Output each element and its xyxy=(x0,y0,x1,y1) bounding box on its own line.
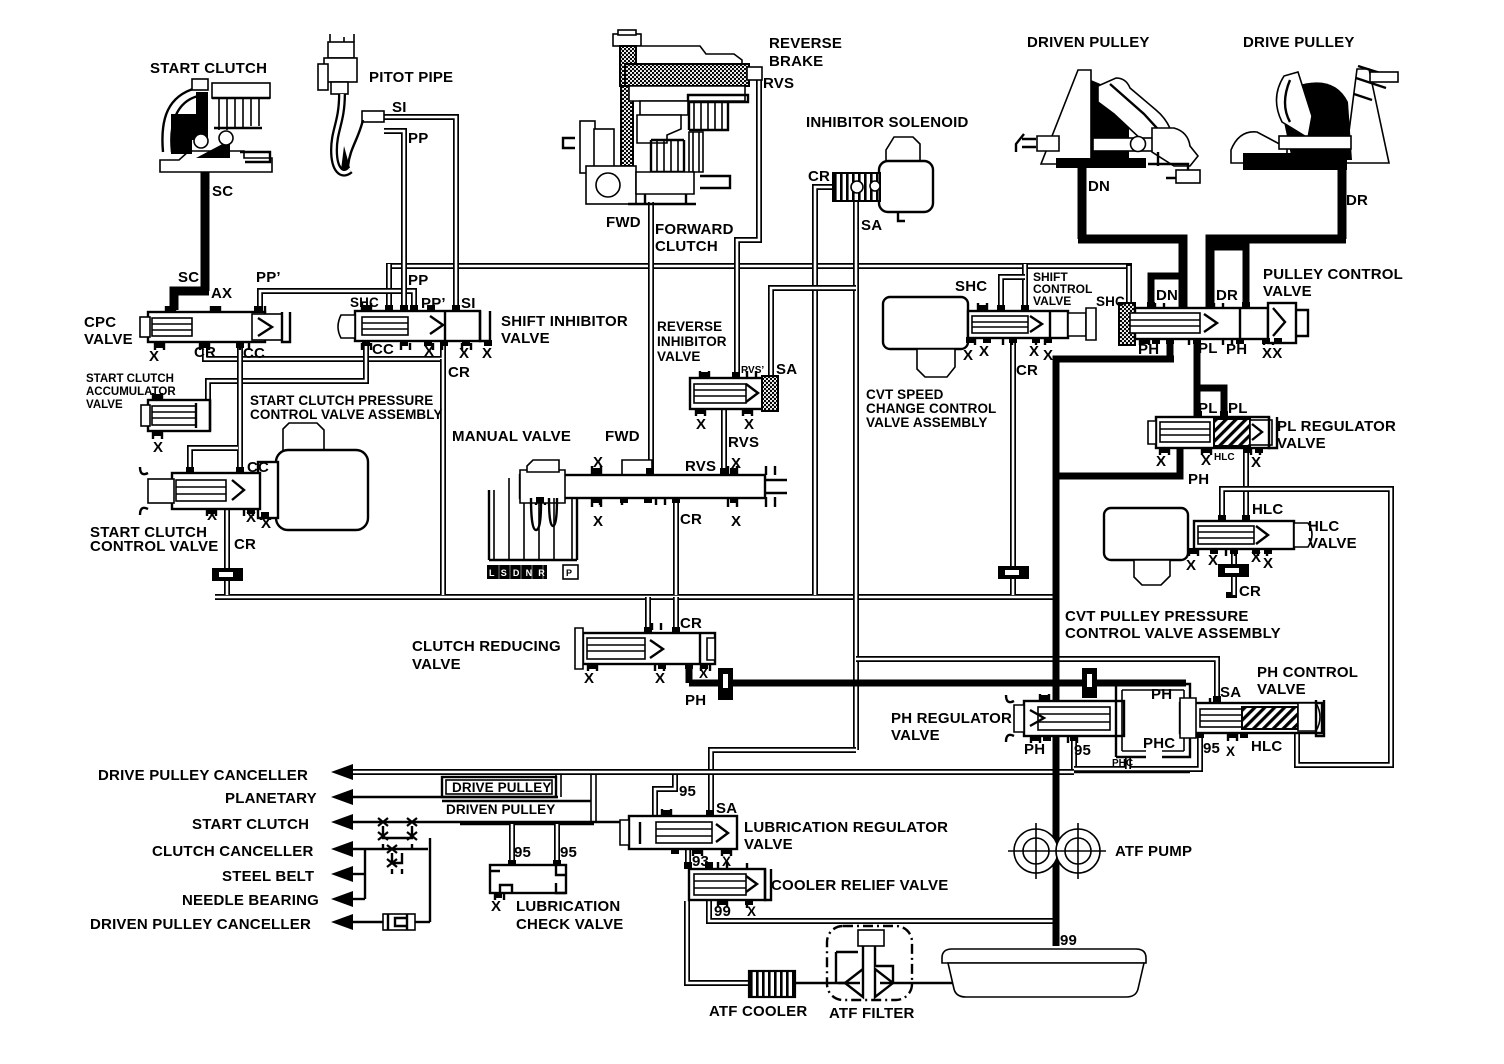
svg-text:VALVE: VALVE xyxy=(1033,294,1071,308)
svg-text:X: X xyxy=(1201,452,1211,469)
svg-text:PL: PL xyxy=(1198,340,1218,357)
svg-text:PP: PP xyxy=(408,130,428,147)
svg-text:95: 95 xyxy=(1074,742,1091,759)
svg-text:START CLUTCH PRESSURE: START CLUTCH PRESSURE xyxy=(250,393,433,408)
svg-text:PL REGULATOR: PL REGULATOR xyxy=(1277,418,1396,435)
svg-text:DN: DN xyxy=(1156,287,1178,304)
svg-text:X: X xyxy=(1029,343,1039,360)
svg-text:PH: PH xyxy=(1138,341,1159,358)
svg-text:MANUAL VALVE: MANUAL VALVE xyxy=(452,428,571,445)
wire y772 long run xyxy=(352,769,1074,775)
wire long horizontal run y597 xyxy=(215,594,1054,600)
svg-text:BRAKE: BRAKE xyxy=(769,53,823,70)
svg-text:XX: XX xyxy=(1262,345,1282,362)
svg-text:X: X xyxy=(1156,453,1166,470)
wire canceller long vertical xyxy=(429,838,431,922)
ATF cooler xyxy=(749,971,795,997)
svg-text:PH: PH xyxy=(1188,471,1209,488)
svg-text:99: 99 xyxy=(714,903,731,920)
svg-text:X: X xyxy=(491,898,501,915)
svg-text:FWD: FWD xyxy=(606,214,641,231)
junction box SCCV line xyxy=(212,568,243,581)
svg-text:CR: CR xyxy=(680,511,702,528)
svg-text:PLANETARY: PLANETARY xyxy=(225,790,317,807)
svg-text:X: X xyxy=(246,509,256,526)
wire RVS from reverse brake xyxy=(737,78,759,378)
svg-text:CR: CR xyxy=(1016,362,1038,379)
svg-text:X: X xyxy=(979,343,989,360)
CPC valve xyxy=(140,306,290,350)
wire PL thick xyxy=(1194,336,1201,419)
svg-text:CLUTCH REDUCING: CLUTCH REDUCING xyxy=(412,638,561,655)
svg-text:CLUTCH CANCELLER: CLUTCH CANCELLER xyxy=(152,843,314,860)
svg-text:COOLER RELIEF VALVE: COOLER RELIEF VALVE xyxy=(771,877,948,894)
driven pulley canceller component xyxy=(383,914,415,930)
valve port stubs xyxy=(153,302,1282,905)
svg-text:CR: CR xyxy=(448,364,470,381)
svg-text:X: X xyxy=(261,515,271,532)
wire canceller line 4 clutch canceller xyxy=(350,848,428,850)
svg-text:START CLUTCH: START CLUTCH xyxy=(192,816,309,833)
svg-text:X: X xyxy=(731,455,741,472)
junction box shift control CR line xyxy=(998,566,1029,579)
svg-text:CHANGE CONTROL: CHANGE CONTROL xyxy=(866,401,996,416)
wire filter to pan xyxy=(880,982,960,984)
svg-text:X: X xyxy=(593,454,603,471)
svg-text:SHC: SHC xyxy=(955,278,987,295)
svg-text:X: X xyxy=(1186,557,1196,574)
shift inhibitor valve xyxy=(338,303,490,350)
svg-text:INHIBITOR SOLENOID: INHIBITOR SOLENOID xyxy=(806,114,969,131)
wire SA to lubrication regulator xyxy=(711,750,856,816)
svg-text:CC: CC xyxy=(372,341,394,358)
wire canceller line 7 driven pulley canceller xyxy=(350,921,383,923)
svg-text:CC: CC xyxy=(243,345,265,362)
svg-text:RVS: RVS xyxy=(763,75,794,92)
wire SA branch right to PH control valve xyxy=(856,659,1217,700)
svg-text:P: P xyxy=(566,568,572,578)
wire PH thick from pulley control valve xyxy=(1167,336,1174,359)
wire CR from SCCV down xyxy=(224,510,230,595)
svg-text:SI: SI xyxy=(461,295,476,312)
wire cooler to filter xyxy=(795,982,860,984)
wire SHC right elbow down to pulley control valve xyxy=(1126,263,1132,333)
wire CR drop from shift inhibitor to y597 xyxy=(440,359,446,595)
svg-text:NEEDLE BEARING: NEEDLE BEARING xyxy=(182,892,319,909)
svg-text:95: 95 xyxy=(1203,740,1220,757)
svg-text:CR: CR xyxy=(234,536,256,553)
wire 99 run from cooler relief xyxy=(709,901,1054,921)
wire CR drop from HLC valve xyxy=(1231,550,1237,564)
svg-text:95: 95 xyxy=(679,783,696,800)
svg-text:CC: CC xyxy=(247,459,269,476)
svg-text:VALVE: VALVE xyxy=(86,399,123,411)
svg-text:CPC: CPC xyxy=(84,314,116,331)
svg-text:LUBRICATION REGULATOR: LUBRICATION REGULATOR xyxy=(744,819,948,836)
svg-text:VALVE: VALVE xyxy=(657,349,701,364)
svg-text:X: X xyxy=(747,904,756,919)
svg-text:X: X xyxy=(459,345,469,362)
svg-text:LSDNR: LSDNR xyxy=(489,568,551,578)
svg-text:CR: CR xyxy=(1239,583,1261,600)
lubrication regulator valve xyxy=(620,809,737,856)
svg-text:95: 95 xyxy=(514,844,531,861)
wire SHC drop from y263 to shift inhibitor valve xyxy=(386,264,392,310)
svg-text:HLC: HLC xyxy=(1214,452,1235,463)
svg-text:VALVE: VALVE xyxy=(84,331,133,348)
svg-text:PH: PH xyxy=(1151,686,1172,703)
svg-text:REVERSE: REVERSE xyxy=(657,319,722,334)
svg-text:INHIBITOR: INHIBITOR xyxy=(657,334,727,349)
black component on PH line (left) xyxy=(718,668,733,700)
wire SC thick line xyxy=(201,172,210,291)
wire 95 line lubrication regulator risers xyxy=(655,774,675,816)
svg-text:DRIVE PULLEY: DRIVE PULLEY xyxy=(1243,34,1355,51)
wire drive pulley label box risers xyxy=(556,774,561,797)
svg-text:RVS’: RVS’ xyxy=(741,365,764,376)
wire RVS reverse inhibitor to manual valve xyxy=(721,407,727,474)
svg-text:X: X xyxy=(655,670,665,687)
svg-text:PH: PH xyxy=(1024,741,1045,758)
svg-text:RVS: RVS xyxy=(728,434,759,451)
wire main horizontal run y263 xyxy=(386,263,1129,269)
wire canceller line 1 drive pulley xyxy=(348,771,1190,773)
svg-text:X: X xyxy=(696,416,706,433)
svg-text:VALVE: VALVE xyxy=(1277,435,1326,452)
svg-text:SI: SI xyxy=(392,99,407,116)
wire HLC box loop (CVT pulley pressure assembly) xyxy=(1222,489,1391,765)
svg-text:99: 99 xyxy=(1060,932,1077,949)
wire PHC stub xyxy=(1125,757,1131,769)
svg-text:VALVE: VALVE xyxy=(412,656,461,673)
wire PH thick to PL regulator xyxy=(1056,446,1180,476)
svg-text:X: X xyxy=(699,666,708,681)
svg-text:HLC: HLC xyxy=(1252,501,1283,518)
wire canceller line 2 planetary xyxy=(350,796,558,798)
svg-text:PL: PL xyxy=(1198,400,1218,417)
svg-text:PH REGULATOR: PH REGULATOR xyxy=(891,710,1012,727)
svg-text:X: X xyxy=(1251,549,1261,566)
svg-text:VALVE: VALVE xyxy=(1308,535,1357,552)
svg-text:X: X xyxy=(722,854,731,869)
wire PP' from CPC to shift inhibitor xyxy=(260,291,414,314)
svg-text:AX: AX xyxy=(211,285,232,302)
ATF filter xyxy=(827,926,912,1000)
svg-text:X: X xyxy=(1263,555,1273,572)
svg-text:PH: PH xyxy=(685,692,706,709)
svg-text:HLC: HLC xyxy=(1308,518,1339,535)
wire CR run CPC to shift inhibitor xyxy=(205,345,443,359)
svg-text:VALVE: VALVE xyxy=(744,836,793,853)
svg-text:CHECK VALVE: CHECK VALVE xyxy=(516,916,624,933)
wire CR drop to clutch reducing valve xyxy=(673,597,679,632)
svg-text:ATF COOLER: ATF COOLER xyxy=(709,1003,807,1020)
svg-text:SA: SA xyxy=(716,800,737,817)
svg-text:DN: DN xyxy=(1088,178,1110,195)
svg-text:CR: CR xyxy=(808,168,830,185)
svg-text:DRIVEN PULLEY: DRIVEN PULLEY xyxy=(446,802,555,817)
svg-text:DR: DR xyxy=(1346,192,1368,209)
svg-text:X: X xyxy=(482,345,492,362)
svg-text:DRIVE PULLEY: DRIVE PULLEY xyxy=(452,780,551,795)
svg-text:SA: SA xyxy=(1220,684,1241,701)
svg-text:X: X xyxy=(424,343,434,360)
wire cooler circuit xyxy=(687,901,748,983)
svg-text:ATF PUMP: ATF PUMP xyxy=(1115,843,1192,860)
svg-text:HLC: HLC xyxy=(1251,738,1282,755)
wire PH thick bottom run xyxy=(686,662,693,683)
wire CC run xyxy=(208,345,366,400)
svg-text:X: X xyxy=(744,416,754,433)
svg-text:START CLUTCH: START CLUTCH xyxy=(86,373,174,385)
reverse inhibitor valve xyxy=(690,371,778,416)
svg-text:PHC: PHC xyxy=(1143,735,1175,752)
wire 95/PH-reg bottom loop xyxy=(1071,737,1077,769)
svg-text:X: X xyxy=(1251,454,1261,471)
orifice x-marks between canceller lines xyxy=(378,818,417,874)
svg-text:FORWARD: FORWARD xyxy=(655,221,734,238)
wire CR drop from manual valve xyxy=(673,499,679,595)
svg-text:X: X xyxy=(731,513,741,530)
PH regulator valve + chamber xyxy=(1006,684,1190,757)
wire canceller vertical steel-belt branch xyxy=(364,849,366,899)
svg-text:VALVE: VALVE xyxy=(1263,283,1312,300)
svg-text:PP’: PP’ xyxy=(421,295,446,312)
svg-text:PULLEY CONTROL: PULLEY CONTROL xyxy=(1263,266,1403,283)
wire SI pitot line xyxy=(366,117,456,314)
svg-text:REVERSE: REVERSE xyxy=(769,35,842,52)
svg-text:DRIVEN PULLEY CANCELLER: DRIVEN PULLEY CANCELLER xyxy=(90,916,311,933)
svg-text:PHC: PHC xyxy=(1112,758,1133,769)
svg-text:CR: CR xyxy=(680,615,702,632)
svg-text:CVT SPEED: CVT SPEED xyxy=(866,387,944,402)
svg-text:DRIVE PULLEY CANCELLER: DRIVE PULLEY CANCELLER xyxy=(98,767,308,784)
forward clutch / reverse brake drawing xyxy=(563,30,762,204)
svg-text:PH: PH xyxy=(1226,341,1247,358)
svg-text:DRIVEN PULLEY: DRIVEN PULLEY xyxy=(1027,34,1150,51)
wire CR drop from shift control valve xyxy=(1010,338,1016,566)
clutch reducing valve xyxy=(575,623,715,671)
wire SA from inhibitor solenoid down xyxy=(853,198,859,750)
start clutch assembly drawing xyxy=(160,79,272,172)
junction box HLC CR line xyxy=(1218,564,1249,577)
wire SHC loop at shift control valve xyxy=(1022,264,1028,312)
svg-text:X: X xyxy=(1043,347,1053,364)
oil pan xyxy=(942,949,1146,997)
cooler relief valve xyxy=(689,862,771,908)
svg-text:ATF FILTER: ATF FILTER xyxy=(829,1005,915,1022)
wire HLC from PL regulator down xyxy=(1243,448,1249,519)
svg-text:SC: SC xyxy=(212,183,233,200)
wire canceller line 6 needle bearing xyxy=(350,898,365,900)
start clutch control valve + solenoid xyxy=(140,423,368,530)
start clutch accumulator valve xyxy=(141,393,210,439)
svg-text:CVT PULLEY PRESSURE: CVT PULLEY PRESSURE xyxy=(1065,608,1249,625)
pitot pipe drawing xyxy=(318,34,363,173)
svg-text:CONTROL VALVE ASSEMBLY: CONTROL VALVE ASSEMBLY xyxy=(250,407,442,422)
svg-text:RVS: RVS xyxy=(685,458,716,475)
svg-text:LUBRICATION: LUBRICATION xyxy=(516,898,620,915)
svg-text:X: X xyxy=(207,507,217,524)
svg-text:VALVE: VALVE xyxy=(891,727,940,744)
svg-text:CONTROL VALVE: CONTROL VALVE xyxy=(90,538,218,555)
wire 95 drops to lubrication check valve xyxy=(509,824,515,864)
wire PP pitot vertical xyxy=(384,131,404,314)
wire driven pulley box lines xyxy=(442,800,591,802)
svg-text:PP: PP xyxy=(408,272,428,289)
wire FWD drop to manual valve xyxy=(648,202,654,474)
wire canceller line 5 steel belt xyxy=(350,873,365,875)
svg-text:CR: CR xyxy=(194,344,216,361)
svg-text:VALVE ASSEMBLY: VALVE ASSEMBLY xyxy=(866,415,987,430)
PH control valve xyxy=(1180,698,1324,741)
drive pulley drawing xyxy=(1231,66,1398,170)
wire CR from inhibitor solenoid xyxy=(815,187,836,595)
svg-text:SA: SA xyxy=(861,217,882,234)
black component on PH line (right) xyxy=(1082,668,1097,698)
svg-text:VALVE: VALVE xyxy=(1257,681,1306,698)
svg-text:PITOT PIPE: PITOT PIPE xyxy=(369,69,453,86)
svg-text:DR: DR xyxy=(1216,287,1238,304)
svg-text:CONTROL VALVE ASSEMBLY: CONTROL VALVE ASSEMBLY xyxy=(1065,625,1281,642)
wire 93 drop lubrication regulator to cooler relief xyxy=(685,850,691,868)
svg-text:SHC: SHC xyxy=(1096,294,1125,309)
drive pulley label box xyxy=(442,777,556,797)
svg-text:PL: PL xyxy=(1228,400,1248,417)
svg-text:X: X xyxy=(1208,552,1218,569)
svg-text:X: X xyxy=(1226,744,1235,759)
wire CC vertical CPC to start clutch control valve xyxy=(237,345,243,472)
wire DN thick xyxy=(1078,167,1087,239)
HLC valve + solenoid xyxy=(1104,508,1312,585)
svg-text:PH CONTROL: PH CONTROL xyxy=(1257,664,1358,681)
svg-text:X: X xyxy=(153,439,163,456)
svg-text:START CLUTCH: START CLUTCH xyxy=(150,60,267,77)
svg-text:CLUTCH: CLUTCH xyxy=(655,238,718,255)
svg-text:X: X xyxy=(963,347,973,364)
svg-text:X: X xyxy=(584,670,594,687)
svg-text:93: 93 xyxy=(692,853,709,870)
wire drop from y597 to clutch reducing valve xyxy=(645,597,651,632)
wire DR thick xyxy=(1338,160,1347,239)
lubrication check valve xyxy=(490,865,566,900)
wire canceller line 3 start clutch xyxy=(348,818,655,822)
canceller arrows xyxy=(331,764,353,930)
svg-text:VALVE: VALVE xyxy=(501,330,550,347)
pulley control valve xyxy=(1119,303,1308,345)
svg-text:95: 95 xyxy=(560,844,577,861)
PL regulator valve xyxy=(1148,417,1277,455)
CVT speed change solenoid + shift control valve xyxy=(883,297,1096,377)
wire SA branch to reverse inhibitor valve xyxy=(771,288,856,379)
wire CC branch to SCCV left top xyxy=(190,448,238,472)
driven pulley drawing xyxy=(1016,70,1200,183)
svg-text:X: X xyxy=(593,513,603,530)
svg-text:FWD: FWD xyxy=(605,428,640,445)
svg-text:X: X xyxy=(149,348,159,365)
svg-text:PP’: PP’ xyxy=(256,269,281,286)
svg-text:SC: SC xyxy=(178,269,199,286)
inhibitor solenoid drawing xyxy=(833,137,933,221)
svg-text:STEEL BELT: STEEL BELT xyxy=(222,868,314,885)
manual valve xyxy=(487,460,787,579)
svg-text:SHIFT INHIBITOR: SHIFT INHIBITOR xyxy=(501,313,628,330)
ATF pump xyxy=(1008,823,1106,879)
svg-text:SA: SA xyxy=(776,361,797,378)
svg-text:SHC: SHC xyxy=(350,295,379,310)
svg-text:ACCUMULATOR: ACCUMULATOR xyxy=(86,386,176,398)
